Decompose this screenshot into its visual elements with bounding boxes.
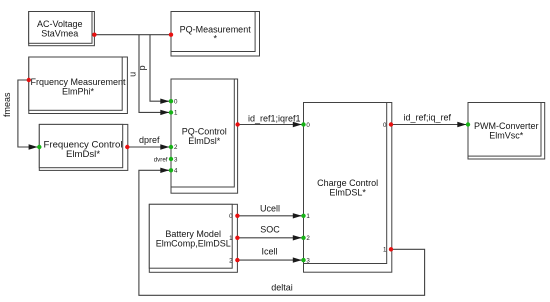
svg-text:p: p	[137, 65, 147, 70]
svg-text:Charge Control: Charge Control	[317, 178, 378, 188]
svg-text:0: 0	[174, 98, 178, 105]
svg-text:Frquency Measurement: Frquency Measurement	[30, 77, 126, 87]
svg-text:0: 0	[229, 213, 233, 220]
svg-text:*: *	[213, 33, 217, 43]
svg-text:id_ref1;iqref1: id_ref1;iqref1	[248, 113, 301, 123]
svg-text:id_ref;iq_ref: id_ref;iq_ref	[403, 113, 451, 123]
svg-text:0: 0	[306, 122, 310, 129]
svg-text:1: 1	[306, 213, 310, 220]
svg-text:ElmDSL*: ElmDSL*	[329, 187, 366, 197]
svg-text:Icell: Icell	[261, 247, 277, 257]
svg-text:SOC: SOC	[260, 225, 280, 235]
svg-text:0: 0	[383, 122, 387, 129]
svg-text:u: u	[127, 72, 137, 77]
svg-text:StaVmea: StaVmea	[41, 29, 78, 39]
svg-text:fmeas: fmeas	[2, 92, 12, 117]
svg-text:1: 1	[229, 235, 233, 242]
svg-text:Battery Model: Battery Model	[165, 229, 221, 239]
svg-text:3: 3	[306, 258, 310, 265]
svg-text:2: 2	[229, 258, 233, 265]
svg-text:AC-Voltage: AC-Voltage	[37, 19, 83, 29]
svg-text:1: 1	[174, 110, 178, 117]
svg-text:2: 2	[174, 144, 178, 151]
svg-text:dpref: dpref	[139, 135, 160, 145]
svg-text:deltai: deltai	[271, 282, 293, 292]
svg-text:Ucell: Ucell	[260, 204, 280, 214]
svg-text:ElmVsc*: ElmVsc*	[489, 130, 524, 140]
svg-text:PQ-Control: PQ-Control	[182, 127, 227, 137]
svg-text:ElmDsl*: ElmDsl*	[188, 136, 220, 146]
svg-text:ElmPhi*: ElmPhi*	[62, 87, 95, 97]
svg-text:ElmComp,ElmDSL: ElmComp,ElmDSL	[156, 238, 231, 248]
svg-text:3: 3	[174, 157, 178, 164]
svg-text:2: 2	[306, 235, 310, 242]
svg-text:ElmDsl*: ElmDsl*	[66, 149, 100, 160]
svg-text:1: 1	[383, 247, 387, 254]
svg-text:dvref: dvref	[154, 156, 168, 163]
svg-text:PWM-Converter: PWM-Converter	[474, 121, 539, 131]
svg-text:4: 4	[174, 167, 178, 174]
